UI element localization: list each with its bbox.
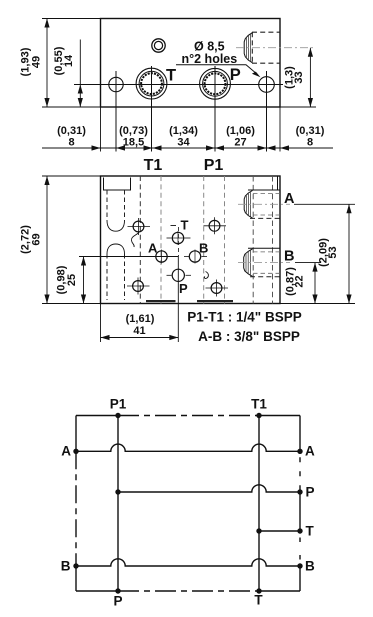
boundary right: B to corner: [299, 566, 301, 591]
hidden slot lower rounded top: [107, 244, 125, 254]
svg-text:P1: P1: [204, 157, 224, 174]
svg-text:T: T: [306, 524, 315, 539]
port T (top view): [136, 68, 167, 99]
port dot B left: [73, 563, 78, 568]
mounting hole left (o8,5): [109, 77, 123, 91]
svg-text:T1: T1: [251, 397, 267, 412]
svg-text:A-B : 3/8" BSPP: A-B : 3/8" BSPP: [198, 329, 300, 344]
port dot T1: [256, 413, 261, 418]
boundary right: A to P (dashed): [299, 451, 301, 492]
leader underline: [176, 65, 258, 75]
bottom face port bar T1: [146, 300, 176, 302]
boundary bottom: T to corner: [259, 590, 300, 592]
port T (front view): [167, 231, 191, 245]
locating pin hole (small ring top): [152, 39, 165, 52]
hidden drilling A-B right line: [272, 176, 274, 304]
extension line bottom-right (front): [280, 303, 355, 305]
vertical centerline port T: [151, 66, 153, 152]
plug centerline (dash-dot): [236, 47, 316, 49]
extension line bottom-right: [280, 106, 316, 108]
svg-text:T: T: [181, 218, 189, 233]
extension line A centerline right: [294, 203, 355, 205]
extension line B centerline right: [295, 262, 321, 264]
svg-text:22: 22: [294, 275, 306, 287]
chain arrowheads: [92, 145, 101, 150]
cartridge plug B (front view): [244, 248, 280, 276]
plug dome contour lines: [246, 34, 250, 62]
dimension 69 line: [46, 176, 48, 304]
gallery line T: [259, 530, 300, 532]
vertical centerline port P: [214, 66, 216, 152]
leader arrowhead: [252, 72, 261, 78]
boundary left: B to corner: [75, 566, 77, 591]
svg-text:(1,34): (1,34): [169, 125, 198, 137]
port dot P right: [297, 489, 302, 494]
centerline T-P vertical (dash-dot): [177, 227, 179, 257]
port A (front view): [156, 250, 167, 264]
cartridge plug body (hidden, top view): [252, 32, 280, 63]
extension line bottom-left (front): [42, 303, 101, 305]
plug B centerline: [238, 262, 290, 264]
port dot P bottom: [115, 588, 120, 593]
svg-text:n°2 holes: n°2 holes: [182, 52, 238, 66]
dimension 33 line: [309, 48, 311, 107]
port dot P1: [115, 413, 120, 418]
hidden slot upper rounded bottom: [107, 221, 125, 232]
vertical centerline left hole: [115, 71, 117, 152]
port P (front view): [167, 269, 192, 281]
horizontal centerline through ports: [74, 84, 283, 86]
svg-text:P: P: [113, 594, 122, 609]
svg-text:T: T: [254, 593, 263, 608]
dimension 22 line: [314, 263, 316, 304]
boundary right: corner to A: [299, 416, 301, 452]
chain extension line left edge: [100, 107, 102, 152]
plug A centerline: [238, 203, 290, 205]
svg-text:B: B: [199, 241, 208, 256]
port dot B right: [297, 563, 302, 568]
extension line left edge down: [100, 304, 102, 343]
hidden slot lower (dashed): [107, 254, 125, 300]
counterbore recess top-left: [104, 178, 131, 191]
bolt hole top-right: [204, 217, 227, 234]
bolt hole bottom-left: [127, 278, 150, 295]
svg-text:P1: P1: [110, 397, 127, 412]
svg-text:(1,61): (1,61): [126, 313, 155, 325]
manifold block outline (top view): [101, 19, 281, 108]
gallery line P with jump-over: [118, 485, 300, 492]
squiggle near top-left bolt: [131, 233, 139, 248]
dimension 25 line: [83, 257, 85, 304]
svg-text:8: 8: [68, 137, 74, 149]
hidden drilling T1 right line: [160, 176, 162, 304]
svg-text:A: A: [284, 191, 295, 207]
gallery line A with jump-overs: [76, 444, 300, 451]
svg-text:A: A: [61, 444, 71, 459]
dimension 41 line: [101, 337, 179, 339]
dimension 14 line: [79, 40, 81, 108]
chain extension line right edge: [279, 107, 281, 152]
svg-text:B: B: [61, 559, 71, 574]
port dot A right: [297, 449, 302, 454]
svg-text:P1-T1 : 1/4" BSPP: P1-T1 : 1/4" BSPP: [187, 310, 301, 325]
boundary left: A to B (chain): [75, 451, 77, 566]
port dot T right: [297, 528, 302, 533]
squiggle near P port: [204, 272, 208, 279]
boundary top: P1 to T1 (chain): [118, 415, 259, 417]
svg-text:A: A: [305, 444, 315, 459]
svg-text:B: B: [305, 559, 315, 574]
svg-text:41: 41: [133, 325, 145, 337]
gallery vertical P1: [117, 416, 119, 592]
mounting hole right (o8,5): [259, 77, 275, 93]
P vertical solid to dimension: [177, 257, 179, 343]
svg-text:T: T: [166, 67, 176, 85]
svg-text:P: P: [306, 485, 315, 500]
port B (front view): [184, 250, 207, 264]
bolt hole top-left: [128, 218, 151, 235]
cartridge plug A (front view): [244, 190, 280, 218]
boundary bottom: corner to P: [76, 590, 118, 592]
svg-text:49: 49: [31, 56, 43, 68]
svg-text:34: 34: [177, 137, 190, 149]
hidden slot upper (dashed): [107, 190, 125, 221]
svg-text:P: P: [179, 281, 188, 296]
svg-text:T1: T1: [144, 157, 163, 174]
svg-text:18,5: 18,5: [123, 137, 144, 149]
junction dot P: [115, 489, 120, 494]
bottom face port bar P1: [197, 300, 233, 302]
svg-text:25: 25: [66, 274, 78, 286]
extension line top-left: [42, 18, 101, 20]
svg-text:P: P: [230, 66, 241, 84]
boundary right: T to B (dashed): [299, 531, 301, 566]
boundary top: T1 to corner: [259, 415, 300, 417]
junction dot T: [256, 528, 261, 533]
extension line bottom-left: [42, 106, 101, 108]
dimension 49 line: [46, 19, 48, 108]
svg-text:27: 27: [234, 137, 246, 149]
svg-text:A: A: [148, 241, 158, 256]
gallery vertical T1: [258, 416, 260, 592]
port P (top view): [200, 68, 231, 99]
hidden drilling P1 left line: [203, 176, 205, 304]
port dot T bottom: [256, 588, 261, 593]
A-line horizontal solid: [79, 256, 178, 258]
port dot A left: [73, 449, 78, 454]
svg-text:(0,73): (0,73): [119, 125, 148, 137]
extension line top-left (front): [42, 175, 101, 177]
hidden drilling P1 right line: [224, 176, 226, 304]
boundary top: corner to P1: [76, 415, 118, 417]
cartridge plug dome (top view): [244, 33, 252, 63]
svg-text:(1,06): (1,06): [226, 125, 255, 137]
vertical centerline right hole: [266, 71, 268, 152]
svg-text:33: 33: [293, 71, 305, 83]
gallery line B with jump-overs: [76, 559, 300, 566]
svg-text:53: 53: [327, 246, 339, 258]
manifold block outline (front view): [101, 176, 281, 304]
boundary bottom: P to T (chain): [118, 590, 259, 592]
hidden drilling A-B left line: [252, 176, 254, 304]
hidden drilling T1 left line: [139, 176, 141, 304]
svg-text:69: 69: [31, 233, 43, 245]
dimension 53 line: [348, 204, 350, 303]
boundary left: corner to A: [75, 416, 77, 452]
tick left of label T: [171, 225, 177, 227]
svg-text:8: 8: [307, 137, 313, 149]
bolt hole bottom-right: [206, 280, 229, 297]
top-right edge tick: [277, 176, 279, 190]
svg-text:(0,31): (0,31): [57, 125, 86, 137]
bottom dimension chain line: [42, 147, 333, 149]
boundary right: P to T: [299, 492, 301, 531]
svg-text:14: 14: [63, 54, 75, 67]
svg-text:B: B: [284, 249, 294, 265]
svg-text:(0,31): (0,31): [296, 125, 325, 137]
